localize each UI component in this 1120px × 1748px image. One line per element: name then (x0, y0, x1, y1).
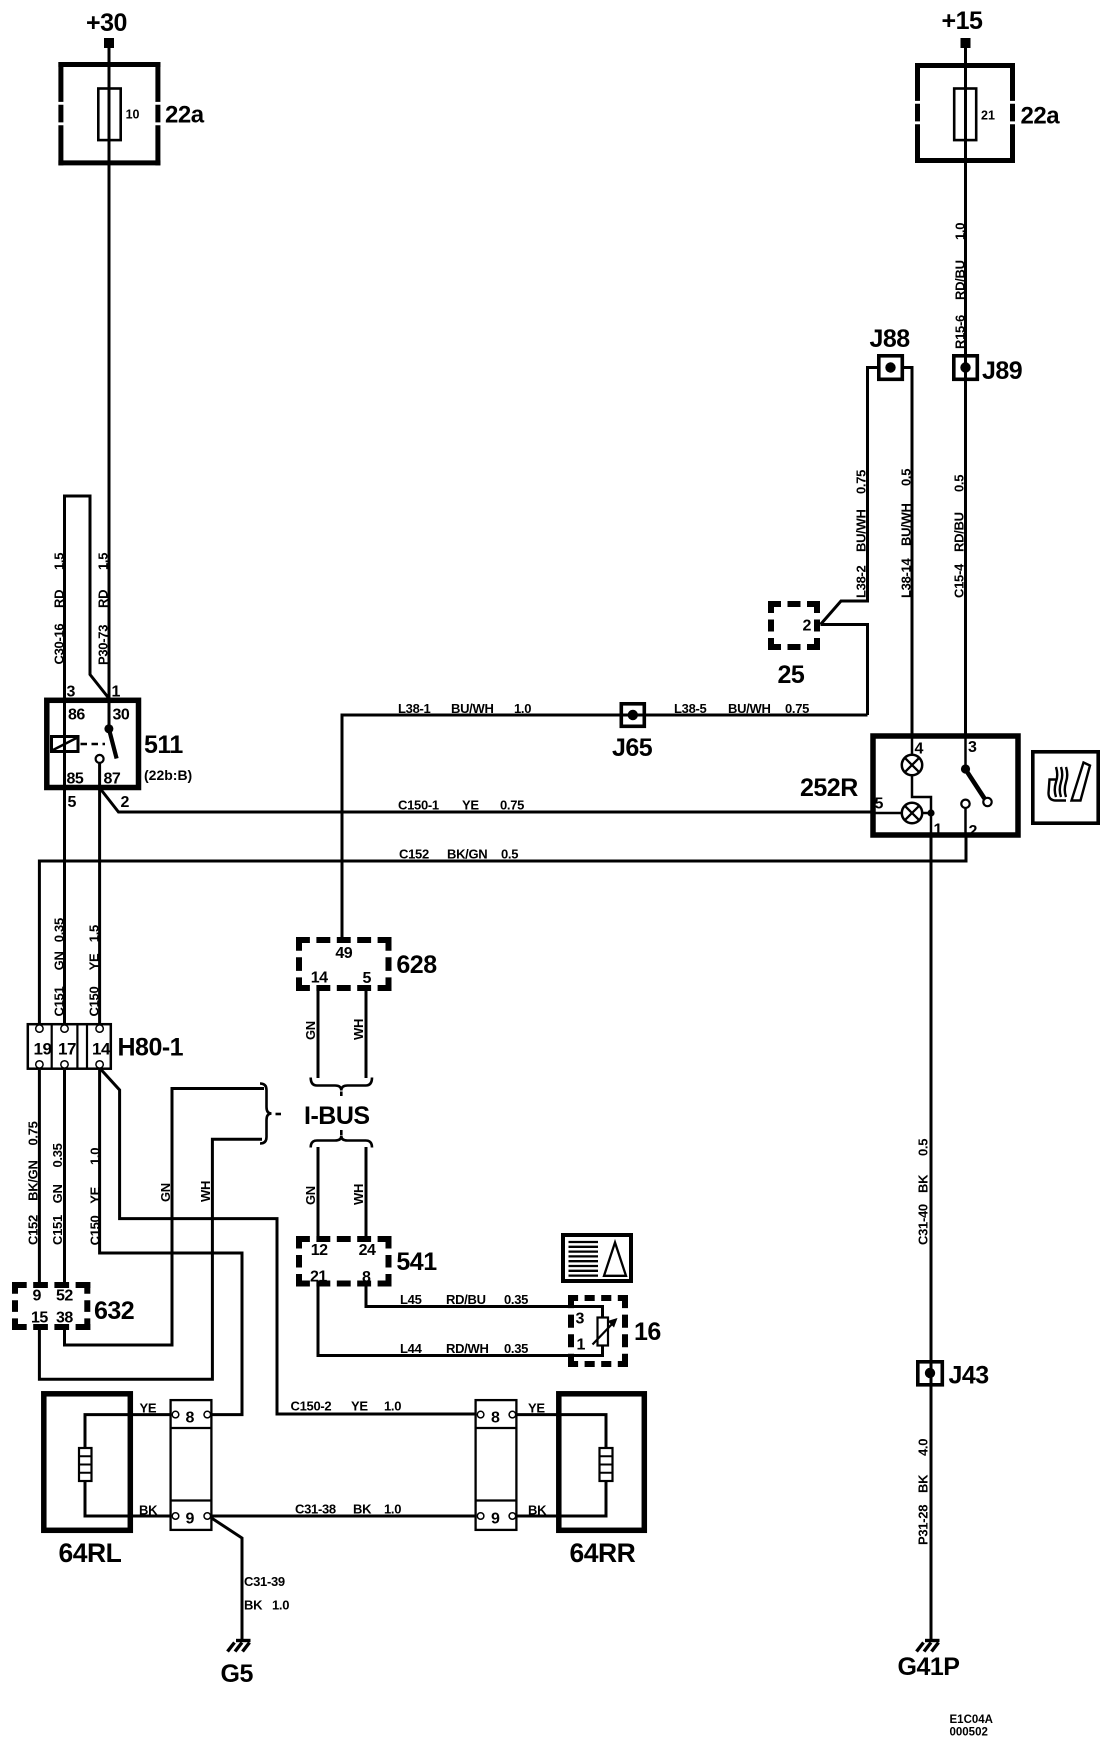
svg-text:C31-39: C31-39 (244, 1574, 285, 1589)
svg-text:0.75: 0.75 (500, 798, 524, 813)
svg-text:14: 14 (311, 970, 328, 987)
svg-text:P30-73RD1.5: P30-73RD1.5 (96, 553, 111, 665)
svg-text:22a: 22a (1021, 103, 1061, 130)
svg-text:1: 1 (577, 1337, 586, 1354)
svg-text:17: 17 (58, 1040, 76, 1059)
svg-text:L38-2BU/WH0.75: L38-2BU/WH0.75 (854, 470, 869, 598)
svg-text:2: 2 (969, 823, 978, 840)
svg-text:1.0: 1.0 (384, 1399, 401, 1414)
svg-text:H80-1: H80-1 (118, 1034, 184, 1062)
svg-text:C31-38: C31-38 (295, 1502, 336, 1517)
svg-text:12: 12 (311, 1242, 328, 1259)
svg-text:1.0: 1.0 (514, 701, 531, 716)
svg-text:L38-5: L38-5 (674, 701, 707, 716)
svg-text:5: 5 (363, 970, 372, 987)
svg-text:3: 3 (968, 739, 977, 756)
svg-text:3: 3 (576, 1311, 585, 1328)
svg-text:GN: GN (303, 1021, 318, 1040)
svg-text:0.5: 0.5 (501, 847, 518, 862)
svg-text:511: 511 (144, 731, 183, 759)
svg-text:YE: YE (462, 798, 479, 813)
svg-text:15: 15 (31, 1310, 48, 1327)
svg-text:64RL: 64RL (59, 1538, 122, 1568)
svg-text:BK: BK (353, 1502, 372, 1517)
svg-text:+30: +30 (86, 9, 127, 37)
svg-text:252R: 252R (800, 774, 858, 802)
svg-text:2: 2 (803, 618, 812, 635)
svg-text:64RR: 64RR (570, 1538, 636, 1568)
svg-text:C150-1: C150-1 (398, 798, 439, 813)
svg-text:I-BUS: I-BUS (304, 1102, 370, 1130)
svg-text:4: 4 (915, 741, 924, 758)
svg-text:G41P: G41P (898, 1653, 960, 1681)
svg-text:21: 21 (310, 1269, 327, 1286)
svg-text:RD/BU: RD/BU (446, 1292, 486, 1307)
svg-text:85: 85 (67, 771, 84, 788)
svg-text:C31-40BK0.5: C31-40BK0.5 (916, 1139, 931, 1245)
svg-text:1.0: 1.0 (272, 1598, 289, 1613)
svg-text:24: 24 (359, 1242, 376, 1259)
svg-text:628: 628 (396, 951, 437, 979)
svg-text:3: 3 (67, 684, 76, 701)
svg-text:E1C04A: E1C04A (950, 1714, 993, 1726)
svg-text:8: 8 (491, 1410, 500, 1427)
svg-text:632: 632 (94, 1297, 134, 1325)
svg-text:C150YE1.0: C150YE1.0 (87, 1148, 102, 1246)
svg-text:G5: G5 (221, 1660, 254, 1688)
svg-text:C151GN0.35: C151GN0.35 (52, 918, 67, 1016)
svg-text:YE: YE (351, 1399, 368, 1414)
svg-text:0.35: 0.35 (504, 1341, 528, 1356)
svg-text:BU/WH: BU/WH (451, 701, 494, 716)
svg-text:0.35: 0.35 (504, 1292, 528, 1307)
svg-text:52: 52 (56, 1288, 73, 1305)
svg-text:C150-2: C150-2 (291, 1399, 332, 1414)
svg-text:WH: WH (351, 1019, 366, 1040)
svg-text:0.75: 0.75 (785, 701, 809, 716)
svg-text:BU/WH: BU/WH (728, 701, 771, 716)
svg-text:BK: BK (528, 1503, 547, 1518)
svg-text:16: 16 (634, 1318, 661, 1346)
svg-text:C152BK/GN0.75: C152BK/GN0.75 (26, 1121, 41, 1245)
svg-text:9: 9 (186, 1511, 195, 1528)
svg-text:9: 9 (491, 1511, 500, 1528)
svg-text:5: 5 (68, 794, 77, 811)
svg-text:WH: WH (198, 1181, 213, 1202)
svg-text:+15: +15 (942, 7, 984, 35)
svg-text:YE: YE (528, 1401, 545, 1416)
svg-text:8: 8 (186, 1410, 195, 1427)
svg-text:9: 9 (33, 1288, 42, 1305)
svg-text:30: 30 (113, 707, 130, 724)
svg-text:BK: BK (244, 1598, 263, 1613)
svg-text:C151GN0.35: C151GN0.35 (50, 1143, 65, 1245)
svg-text:14: 14 (92, 1040, 111, 1059)
svg-text:RD/WH: RD/WH (446, 1341, 489, 1356)
svg-text:49: 49 (335, 945, 352, 962)
svg-text:L38-1: L38-1 (398, 701, 431, 716)
svg-text:22a: 22a (165, 102, 205, 129)
svg-text:C152: C152 (399, 847, 429, 862)
svg-text:1: 1 (934, 822, 943, 839)
svg-text:L44: L44 (400, 1341, 423, 1356)
svg-text:(22b:B): (22b:B) (144, 767, 192, 783)
svg-text:C30-16RD1.5: C30-16RD1.5 (52, 553, 67, 665)
svg-text:000502: 000502 (950, 1727, 988, 1739)
svg-text:L45: L45 (400, 1292, 422, 1307)
svg-text:21: 21 (981, 109, 995, 123)
svg-text:YE: YE (140, 1401, 157, 1416)
svg-text:25: 25 (778, 661, 805, 689)
svg-text:GN: GN (303, 1186, 318, 1205)
svg-text:WH: WH (351, 1184, 366, 1205)
svg-text:C150YE1.5: C150YE1.5 (87, 925, 102, 1017)
svg-text:10: 10 (126, 108, 140, 122)
svg-text:1: 1 (112, 684, 121, 701)
svg-text:J65: J65 (612, 734, 653, 762)
svg-text:P31-28BK4.0: P31-28BK4.0 (916, 1439, 931, 1545)
svg-text:1.0: 1.0 (384, 1502, 401, 1517)
svg-text:J43: J43 (949, 1362, 989, 1390)
svg-text:8: 8 (362, 1269, 371, 1286)
svg-text:541: 541 (396, 1248, 437, 1276)
svg-text:86: 86 (68, 707, 85, 724)
svg-text:19: 19 (34, 1040, 52, 1059)
svg-text:J89: J89 (982, 357, 1022, 385)
svg-text:38: 38 (56, 1310, 73, 1327)
svg-text:BK/GN: BK/GN (447, 847, 487, 862)
svg-text:87: 87 (104, 771, 121, 788)
svg-text:2: 2 (121, 794, 130, 811)
svg-text:J88: J88 (870, 325, 911, 353)
svg-text:5: 5 (875, 796, 884, 813)
svg-text:GN: GN (158, 1183, 173, 1202)
svg-text:BK: BK (139, 1503, 158, 1518)
